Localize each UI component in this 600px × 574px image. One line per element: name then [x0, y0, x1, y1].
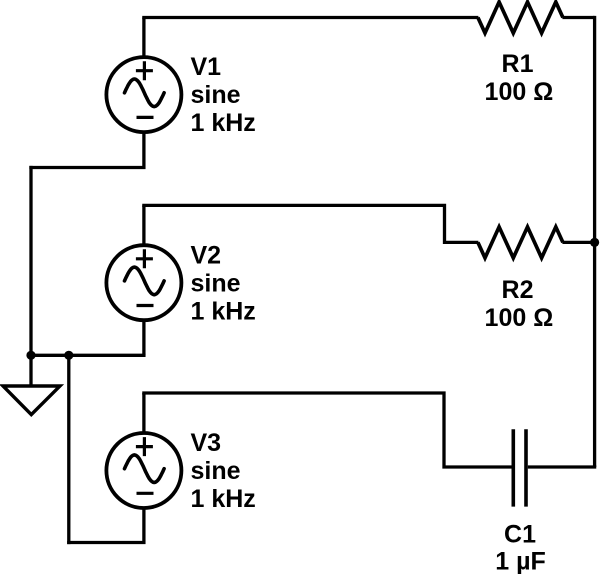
wire V3 top lead [142, 393, 145, 432]
junction dot ground node left [26, 351, 35, 360]
wire V3 bottom lead [67, 507, 144, 543]
minus sign [137, 304, 154, 307]
resistor R1 [478, 2, 563, 33]
wire ground rail [31, 354, 146, 357]
wire V3 return vertical [67, 355, 70, 544]
svg-text:C1: C1 [504, 521, 536, 549]
plus sign [136, 249, 153, 268]
sine wave symbol [125, 455, 165, 483]
minus sign [137, 492, 154, 495]
wire V3 rail to capacitor [142, 393, 511, 467]
wire left vertical to ground [29, 166, 32, 386]
svg-text:sine: sine [191, 270, 241, 298]
wire R1 to right vertical [562, 16, 594, 19]
sine wave symbol [125, 267, 165, 295]
svg-text:V2: V2 [191, 242, 222, 270]
svg-text:R1: R1 [502, 50, 534, 78]
voltage source V3 circle [106, 433, 181, 508]
voltage source V1 circle [106, 57, 181, 132]
svg-text:R2: R2 [502, 276, 534, 304]
wire right vertical [593, 16, 596, 467]
junction dot node A (R1/R2 junction) [590, 238, 599, 247]
svg-text:1 kHz: 1 kHz [191, 485, 256, 513]
svg-text:100 Ω: 100 Ω [485, 78, 554, 106]
sine wave symbol [125, 79, 165, 107]
svg-text:1 µF: 1 µF [495, 548, 546, 574]
svg-text:100 Ω: 100 Ω [485, 304, 554, 332]
wire V2 top lead [142, 205, 145, 244]
wire top rail [142, 16, 478, 19]
ground symbol [3, 386, 60, 415]
resistor R2 [478, 227, 563, 258]
svg-text:sine: sine [191, 81, 241, 109]
wire V2 bottom lead [142, 319, 145, 355]
wire V1 top lead [142, 18, 145, 57]
voltage source V2 circle [106, 245, 181, 320]
capacitor C1 plates [513, 429, 526, 506]
svg-text:1 kHz: 1 kHz [191, 298, 256, 326]
svg-text:V1: V1 [191, 53, 222, 81]
plus sign [136, 61, 153, 80]
wire V1 bottom lead [29, 131, 144, 167]
svg-text:1 kHz: 1 kHz [191, 109, 256, 137]
svg-text:V3: V3 [191, 429, 222, 457]
wire V2 rail [142, 205, 478, 242]
junction dot ground node right [64, 351, 73, 360]
minus sign [137, 116, 154, 119]
plus sign [136, 437, 153, 456]
wire R2 to node [562, 241, 594, 244]
wire capacitor to right vertical [528, 465, 596, 468]
svg-text:sine: sine [191, 457, 241, 485]
